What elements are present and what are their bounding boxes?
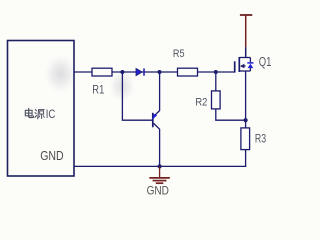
svg-text:R5: R5	[173, 48, 185, 60]
svg-text:GND: GND	[147, 184, 169, 198]
svg-text:Q1: Q1	[259, 54, 272, 69]
svg-text:GND: GND	[40, 148, 63, 163]
svg-text:IC: IC	[46, 109, 56, 121]
svg-text:R3: R3	[255, 134, 266, 146]
svg-text:R2: R2	[195, 96, 207, 108]
svg-text:R1: R1	[92, 84, 104, 96]
